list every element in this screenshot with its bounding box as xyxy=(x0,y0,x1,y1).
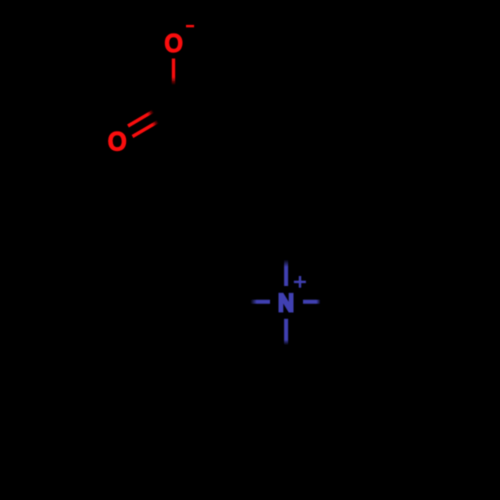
svg-text:O: O xyxy=(164,30,183,58)
svg-text:O: O xyxy=(108,128,127,157)
